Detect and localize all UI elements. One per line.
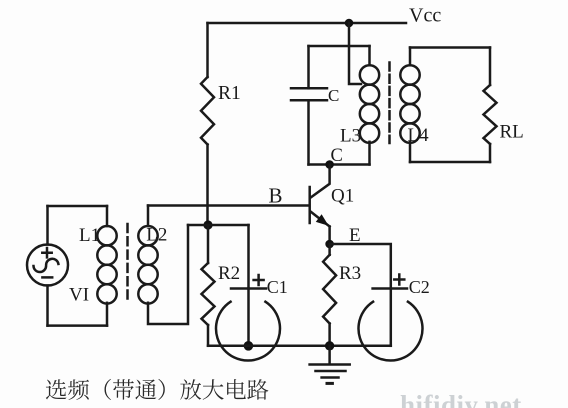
- svg-text:C: C: [331, 146, 343, 166]
- transformer input core dashed line: [126, 224, 129, 303]
- wire: emitter lead down: [328, 227, 331, 245]
- wire: tank box bottom edge: [309, 163, 370, 166]
- node C1 ground junction dot: [244, 341, 254, 351]
- node Vcc junction dot: [345, 19, 354, 28]
- capacitor C2 plate: [373, 287, 407, 290]
- wire: L2 bottom return path: [148, 225, 188, 324]
- svg-text:Vcc: Vcc: [409, 5, 441, 27]
- wire: Vcc tap down to L3: [349, 23, 361, 84]
- transistor Q1 base bar: [308, 187, 311, 223]
- resistor R3: [323, 255, 336, 324]
- svg-text:R2: R2: [218, 263, 240, 284]
- wire: top Vcc rail: [208, 22, 407, 25]
- node collector junction dot: [325, 160, 334, 169]
- wire: R1 bottom lead to bias node: [206, 145, 209, 226]
- wire: output box top edge: [410, 46, 490, 49]
- wire: L1 top lead: [106, 206, 109, 226]
- wire: base lead: [148, 204, 309, 207]
- wire: collector lead: [311, 165, 330, 198]
- wire: bottom ground rail: [208, 345, 391, 348]
- capacitor C1 plate: [231, 287, 266, 290]
- svg-text:C1: C1: [267, 277, 288, 297]
- wire: output box bottom edge: [410, 161, 490, 164]
- node bias junction dot: [203, 220, 212, 229]
- inductor L4: [400, 65, 419, 143]
- wire: R2 top lead: [207, 225, 210, 263]
- svg-text:R3: R3: [339, 263, 361, 284]
- capacitor C1 bottom lead: [247, 289, 250, 346]
- inductor L2: [138, 226, 157, 304]
- wire: emitter node to C2: [330, 244, 391, 289]
- ground: [310, 346, 350, 384]
- inductor L3: [360, 65, 379, 143]
- capacitor C2 polarity plus: [394, 275, 404, 285]
- wire: source top lead: [46, 206, 49, 245]
- svg-text:VI: VI: [69, 284, 89, 305]
- wire: R3 bottom lead: [328, 324, 331, 346]
- capacitor C plates: [291, 88, 327, 100]
- capacitor C1 curved plate: [216, 302, 280, 361]
- wire: tank left edge upper: [307, 46, 310, 88]
- resistor R1: [201, 77, 214, 145]
- svg-text:L1: L1: [79, 225, 100, 246]
- wire: L1 bottom lead: [106, 303, 109, 326]
- wire: L3 bottom lead: [368, 142, 371, 165]
- resistor RL: [484, 85, 497, 144]
- inductor L1: [97, 226, 116, 304]
- wire: source bottom lead: [46, 286, 49, 326]
- wire: R2 bottom lead: [207, 325, 210, 346]
- node emitter junction dot: [325, 240, 334, 249]
- wire: bias node horizontal: [188, 224, 249, 227]
- wire: R1 top lead from rail: [206, 23, 209, 77]
- wire: L4 top lead: [409, 48, 412, 66]
- svg-text:L2: L2: [146, 225, 167, 246]
- wire: tank left edge lower: [307, 100, 310, 164]
- svg-text:R1: R1: [218, 83, 241, 104]
- transistor Q1 emitter with arrow: [311, 212, 330, 227]
- wire: tank box top edge: [309, 45, 370, 48]
- svg-text:RL: RL: [500, 122, 524, 143]
- wire: L4 bottom lead: [409, 142, 412, 162]
- source VI plus mark: [42, 248, 51, 257]
- capacitor C2 curved plate: [359, 302, 423, 361]
- svg-text:hifidiy.net: hifidiy.net: [400, 390, 522, 408]
- svg-text:C2: C2: [409, 277, 430, 297]
- transformer core dashed line: [388, 63, 391, 144]
- resistor R2: [202, 263, 215, 325]
- capacitor C1 polarity plus: [254, 275, 264, 285]
- source VI minus mark: [42, 276, 52, 279]
- wire: tank box right to L3 top: [368, 46, 371, 65]
- svg-text:B: B: [269, 184, 283, 208]
- svg-text:L3: L3: [340, 126, 361, 147]
- wire: input box top edge: [48, 205, 108, 208]
- wire: input box bottom edge: [48, 324, 108, 327]
- svg-text:C: C: [328, 86, 339, 105]
- node ground junction dot: [325, 341, 334, 350]
- capacitor C1 top lead: [247, 225, 250, 289]
- wire: RL top lead: [489, 48, 492, 86]
- source VI sine: [34, 259, 59, 272]
- caption text 选频（带通）放大电路: [46, 379, 269, 400]
- wire: L2 top lead to base wire: [147, 206, 150, 227]
- capacitor C2 bottom lead: [390, 289, 393, 346]
- source VI circle: [27, 245, 68, 286]
- svg-text:Q1: Q1: [331, 186, 354, 207]
- wire: RL bottom lead: [489, 144, 492, 162]
- wire: R3 top lead: [328, 244, 331, 255]
